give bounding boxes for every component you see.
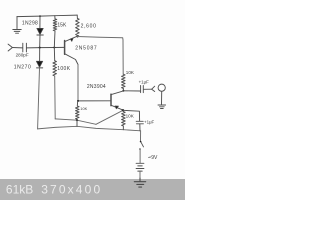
node collector output — [122, 90, 124, 92]
svg-text:10K: 10K — [126, 70, 135, 75]
diode D2 1N270 — [36, 48, 43, 129]
svg-text:+1μF: +1μF — [144, 119, 155, 124]
wire rail A 100K bottom to diagonal — [55, 119, 96, 124]
wire diode column upper — [39, 16, 41, 28]
node input-diode junction — [39, 47, 41, 49]
wire switch to battery — [139, 149, 141, 163]
output jack J2 — [152, 84, 166, 91]
wire diagonal to emitter node — [96, 110, 123, 124]
svg-text:370x400: 370x400 — [41, 183, 102, 197]
wire bottom rail — [38, 126, 141, 131]
wire stub railA-railB — [76, 120, 78, 126]
svg-text:100K: 100K — [57, 66, 71, 72]
resistor R3 2600 ohm — [76, 15, 80, 36]
svg-text:1N270: 1N270 — [14, 65, 31, 71]
wire Q1 collector to Q2 base — [78, 100, 111, 102]
node R4 bottom junction — [76, 119, 78, 121]
resistor R6 10K emitter — [122, 110, 126, 129]
node Q2 emitter — [122, 109, 124, 111]
svg-text:10K: 10K — [126, 114, 135, 119]
capacitor C3 1uF output — [141, 86, 144, 93]
ground GND1 top-left — [13, 30, 21, 34]
battery BT1 9V — [136, 163, 144, 171]
node top rail diode junction — [39, 15, 41, 17]
wire Q1 collector column — [77, 65, 79, 101]
wire rail B to switch — [140, 131, 142, 141]
dash before 9V — [149, 156, 151, 158]
svg-text:+1μF: +1μF — [139, 80, 150, 85]
svg-text:1N298: 1N298 — [22, 21, 38, 27]
transistor Q1 2N5087 — [65, 36, 79, 65]
info band overlay — [0, 179, 185, 200]
input jack J1 — [8, 44, 12, 51]
node input-divider junction — [53, 47, 55, 49]
svg-text:61kB: 61kB — [6, 183, 33, 197]
svg-text:15K: 15K — [57, 23, 67, 29]
diode D1 1N298 — [37, 28, 44, 47]
wire emitter node to long top wire — [78, 37, 124, 41]
resistor R1 15K — [53, 16, 57, 48]
ground GND3 battery (over band) — [134, 178, 145, 187]
ground GND2 output — [158, 105, 166, 109]
svg-text:2,600: 2,600 — [81, 23, 97, 29]
resistor R2 100K — [53, 48, 57, 119]
svg-text:2N3904: 2N3904 — [87, 84, 106, 90]
wire C3 to jack — [144, 88, 152, 90]
svg-text:280pF: 280pF — [16, 52, 29, 57]
resistor R4 10K first stage load — [76, 101, 80, 120]
wire top rail — [17, 15, 77, 17]
node R3 bottom emitter junction — [77, 36, 79, 38]
transistor Q2 2N3904 — [111, 91, 123, 110]
switch S1 — [139, 141, 143, 150]
svg-text:10K: 10K — [80, 106, 87, 111]
wire input line — [27, 46, 65, 49]
wire input to C1 — [12, 47, 22, 49]
wire R5 to output node — [122, 88, 124, 90]
wire battery to ground — [139, 171, 141, 181]
wire long vertical right — [122, 40, 124, 74]
wire output coupling — [123, 90, 140, 92]
resistor R5 10K collector load — [122, 74, 126, 88]
wire J2 to ground — [161, 91, 163, 104]
capacitor C1 280pF — [23, 43, 27, 52]
svg-text:2N5087: 2N5087 — [75, 46, 97, 52]
svg-text:9V: 9V — [151, 155, 158, 161]
capacitor C2 1uF electrolytic — [136, 121, 143, 131]
wire emitter node to C2 — [123, 110, 140, 121]
wire left ground stub — [16, 17, 18, 29]
node Q1 collector R4 junction — [77, 100, 79, 102]
